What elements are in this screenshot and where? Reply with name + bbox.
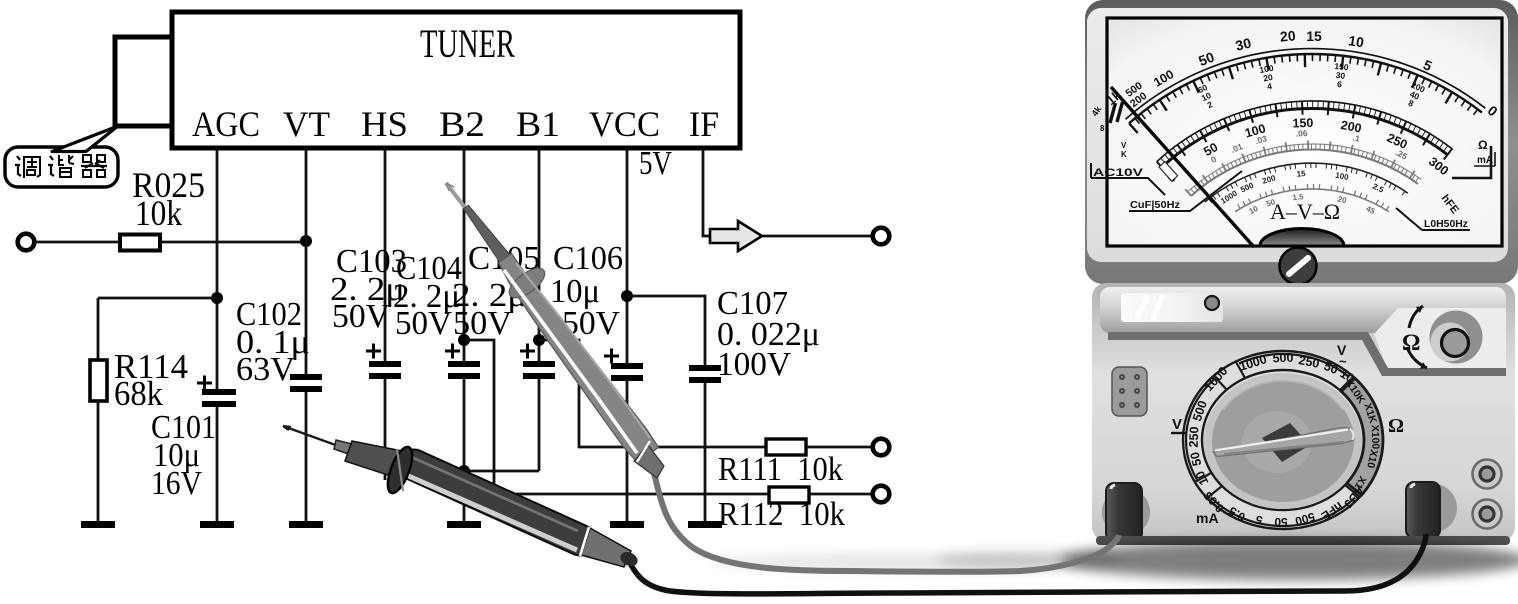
capacitor C105 plates [523,361,555,367]
wire arrow to terminal [762,235,873,238]
meter left tiny labels [1089,103,1127,159]
left jack socket [1102,488,1150,536]
black probe end cap [618,549,640,569]
wire R114 lower lead [97,401,100,521]
wire C105 lower [538,379,541,471]
black probe body highlight [409,456,578,531]
meter gray scale numbers [1209,128,1409,165]
svg-text:VCC: VCC [589,104,660,144]
gray probe shaft [464,205,518,272]
output terminal lower [1473,500,1502,529]
svg-text:~: ~ [1339,354,1347,369]
black probe body [414,465,580,540]
callout bubble [5,147,118,187]
meter gray ticks [1191,144,1419,193]
svg-text:68k: 68k [114,374,163,413]
svg-text:C106: C106 [553,240,623,277]
glass window slashes [1136,295,1163,320]
svg-text:63V: 63V [236,351,295,388]
meter range stack numbers [1196,61,1427,110]
tuner block TUNER [172,12,740,148]
meter 4th arc [1205,163,1408,202]
ground VT [289,521,323,528]
terminal R111 [873,439,890,456]
node VT junction [300,235,312,247]
meter label ohm mA [1474,138,1495,166]
black probe guard [383,444,417,496]
ohm adjust knob [1430,311,1483,364]
rotary ring labels [1187,351,1382,529]
gray probe stripe [504,270,637,453]
black probe body outline [414,465,580,540]
black probe needle [283,426,341,447]
svg-text:AGC: AGC [192,104,260,144]
meter ohm scale numbers [1103,27,1501,119]
multimeter outer case [1085,0,1518,284]
capacitor C101 plates [202,389,236,395]
capacitor C104 plates [448,361,480,367]
node B2 lower junction [458,465,470,477]
rotary symbol V- [1171,416,1187,433]
capacitor C104 plus [445,344,460,359]
terminal R112 [873,486,890,503]
svg-text:CuF|50Hz: CuF|50Hz [1130,199,1180,211]
meter main scale numbers [1164,116,1451,186]
svg-text:500: 500 [1272,351,1293,366]
gray probe guard [505,263,550,303]
wire R111 to terminal [806,446,873,449]
resistor R114 [90,360,107,401]
svg-text:IF: IF [689,104,719,144]
gray probe upper highlight [516,263,650,438]
wire IF pin down [703,148,710,236]
svg-text:B1: B1 [516,104,560,144]
callout pointer [52,126,118,152]
wire R025 to VT [160,241,306,244]
wire B2 to R112 column [464,340,769,494]
rotary dial [1204,373,1362,509]
ground VCC [610,521,644,528]
meter pivot ornament [1260,229,1344,247]
meter needle [1111,87,1254,247]
svg-text:10k: 10k [135,193,182,233]
meter scale window [1107,18,1502,246]
multimeter bottom edge [1096,536,1510,545]
svg-text:VT: VT [283,104,330,144]
bottom panel top strip [1100,287,1506,333]
speaker dots block [1112,367,1147,416]
panel screw [1205,296,1219,310]
rotary ohm sector [1341,378,1383,495]
black probe front taper [345,441,402,477]
input terminal [18,234,35,251]
glass window [1121,293,1223,322]
wire C104 lower [463,379,466,521]
wire B1 to B2 [464,470,539,473]
wire R112 to terminal [809,493,873,496]
meter main major ticks [1157,101,1452,171]
capacitor C101 plus [197,376,212,391]
wire input to R025 [34,241,120,244]
rotary group end ticks [1195,362,1360,498]
meter ohm major ticks [1129,54,1452,133]
svg-text:A–V–Ω: A–V–Ω [1270,199,1340,224]
meter ohm minor ticks [1135,54,1478,124]
svg-text:50V: 50V [453,305,512,342]
meter ohm arc inner [1129,54,1482,123]
right jack socket [1411,484,1457,532]
gray probe tail separator [637,441,650,462]
gray probe cable [654,473,1119,572]
ground C107 [688,521,722,528]
gray probe body [499,253,659,462]
svg-text:Ω: Ω [1388,415,1404,437]
meter ohm arc outer [1126,49,1486,120]
meter main arc outer [1157,101,1453,162]
wire C103 lower [384,379,387,480]
svg-text:Ω: Ω [1478,138,1488,152]
meter 4th scale numbers [1219,169,1385,206]
right jack plug [1406,482,1440,538]
svg-text:16V: 16V [151,465,202,502]
rotary bracket arcs [1186,354,1355,526]
svg-text:K: K [1121,150,1127,159]
black probe body stripe [404,474,577,550]
left jack plug [1106,483,1142,541]
meter right end bracket [1452,146,1491,178]
svg-text:5V: 5V [639,145,672,182]
capacitor C107 plates [689,365,721,371]
rotary ring inner edge [1202,370,1364,510]
wire B1 pin down [538,148,541,361]
black probe tip cone [334,440,360,457]
wire VT pin down [305,148,308,374]
svg-text:50V: 50V [395,305,452,342]
wire HS pin down [384,148,387,361]
wire R114 upper lead [97,298,100,360]
node B2 upper junction [458,334,470,346]
capacitor C103 plus [366,344,381,359]
resistor R112 [769,487,809,503]
svg-text:15: 15 [1296,169,1306,179]
meter gray major ticks [1185,141,1415,196]
svg-text:50: 50 [1274,515,1288,529]
black probe tail separator [580,527,589,556]
node B1 upper junction [533,334,545,346]
svg-text:250: 250 [1187,426,1202,447]
wire AGC pin down [216,148,219,389]
rotary symbol V~ [1337,342,1347,369]
terminal IF [873,228,890,245]
gray probe tail cone [634,445,664,478]
wire C107 lower [704,383,707,521]
svg-text:X100: X100 [1369,425,1382,450]
panel strip shadow border [1108,332,1506,376]
svg-text:10: 10 [1347,32,1365,50]
svg-text:mA: mA [1196,510,1219,526]
ohm adjust arrows [1407,306,1427,369]
meter main rung ticks [1161,101,1448,164]
IF output arrow [710,221,762,251]
meter ohm left end mark [1110,102,1123,123]
svg-text:100V: 100V [717,346,791,383]
meter 4th ticks [1209,163,1405,203]
svg-text:Ω: Ω [1402,330,1420,355]
meter main arc inner [1162,108,1448,167]
meter label AC10V [1091,163,1165,195]
black probe tail cone [581,528,631,567]
svg-text:50V: 50V [332,298,390,335]
node VCC junction [621,290,633,302]
wire C102 lower [305,392,308,521]
gray probe needle tip [446,183,454,191]
black probe cable [628,534,1426,594]
wire AGC to R114 [98,297,217,300]
capacitor C105 plus [520,344,535,359]
svg-text:50: 50 [1188,451,1205,468]
resistor R025 [120,235,160,251]
wire B1 to R111 row [539,340,766,447]
meter inner gray numbers [1248,192,1377,216]
svg-text:R111 10k: R111 10k [718,451,843,488]
svg-text:L0H50Hz: L0H50Hz [1424,218,1468,230]
svg-text:R112 10k: R112 10k [718,496,845,533]
meter inner gray arc [1235,189,1389,212]
antenna connector box [115,37,172,126]
resistor R111 [766,439,806,455]
svg-text:.06: .06 [1295,128,1308,139]
svg-text:8: 8 [1100,124,1105,133]
meter label CuF50Hz [1129,171,1242,211]
gray probe needle [446,183,470,214]
multimeter top case body [1087,8,1508,262]
svg-text:20: 20 [1279,27,1296,44]
svg-text:TUNER: TUNER [420,21,515,66]
node AGC junction [211,292,223,304]
meter gray arc [1191,150,1418,196]
wire C101 lower [216,407,219,521]
panel strip right extension [1374,308,1506,370]
svg-text:V: V [1121,141,1127,150]
svg-text:HS: HS [361,104,408,144]
capacitor C102 plates [290,374,322,380]
rotary ring outer [1183,351,1383,529]
ground R114 [81,521,115,528]
meter needle flag [1159,162,1178,181]
callout text 调谐器 [15,155,107,178]
wire C106 lower [626,381,629,521]
meter zero adjust knob [1280,248,1317,285]
black probe guard sheen [397,449,403,491]
capacitor C106 plus [604,349,619,364]
meter inner gray ticks [1238,184,1389,210]
capacitor C103 plates [369,361,401,367]
rotary dial lever [1213,428,1354,457]
wire B2 pin down [463,148,466,361]
wire VCC to C107 [627,296,705,365]
output terminal upper [1473,460,1502,489]
svg-text:V: V [1172,416,1182,433]
meter gray arc outer [1188,144,1422,192]
ground B2 [447,521,481,528]
capacitor C106 plates [611,363,643,369]
svg-text:B2: B2 [439,104,485,144]
wire VCC pin down [626,148,629,363]
svg-text:15: 15 [1306,28,1322,44]
ground AGC [200,521,234,528]
multimeter shadow [710,540,1518,580]
multimeter bottom panel [1092,283,1515,541]
meter label L0H50Hz [1396,208,1470,230]
